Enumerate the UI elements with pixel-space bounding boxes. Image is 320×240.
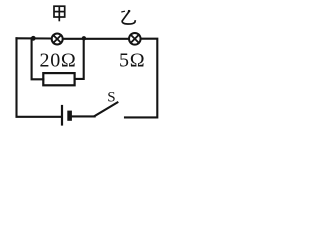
svg-text:20Ω: 20Ω (40, 50, 77, 72)
svg-text:S: S (107, 90, 115, 106)
svg-text:5Ω: 5Ω (119, 50, 145, 72)
